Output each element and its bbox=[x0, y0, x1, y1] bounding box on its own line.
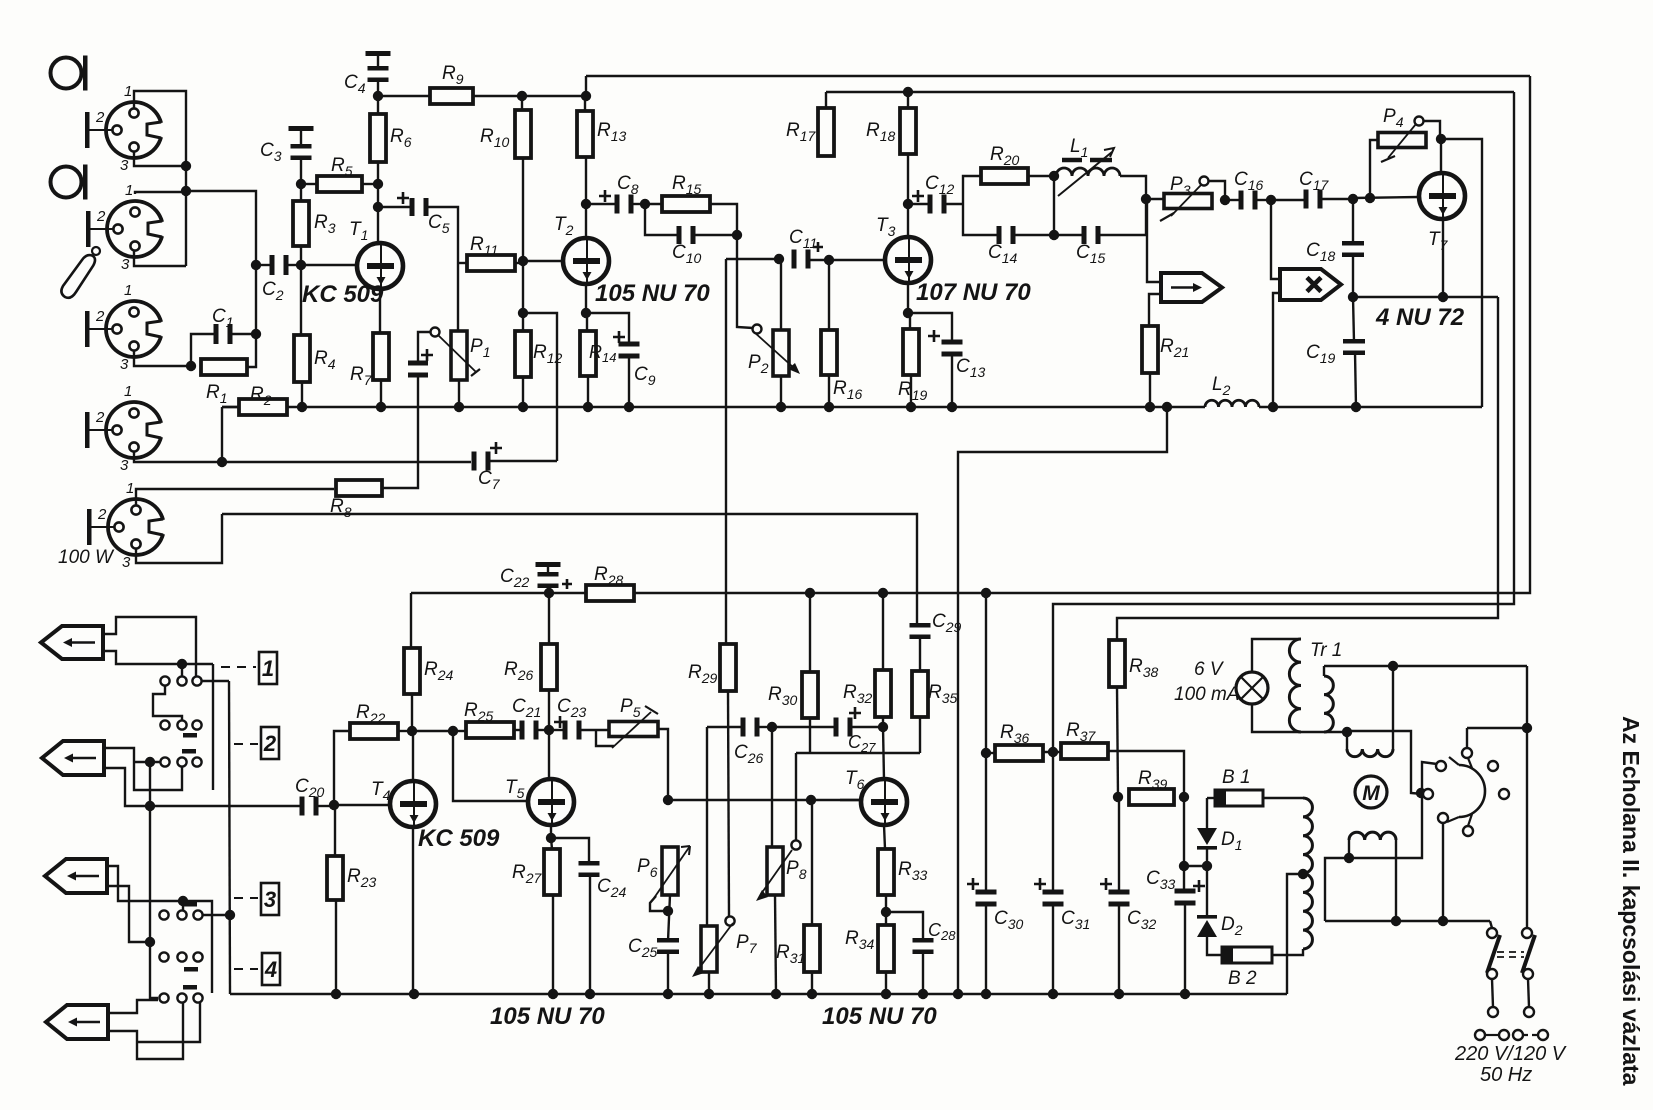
wire DIN5 pin3 to bus2 bbox=[136, 514, 222, 563]
wire C26 left bbox=[707, 726, 741, 728]
wire R23 bottom bbox=[335, 900, 337, 994]
rotary switch tick bottom-right bbox=[1468, 814, 1472, 826]
junction T3 base node bbox=[824, 255, 834, 265]
svg-text:105 NU 70: 105 NU 70 bbox=[490, 1003, 605, 1030]
erase/play head D (left) bbox=[46, 1005, 108, 1039]
resistor R36 bbox=[995, 745, 1043, 761]
wire headD bottom prong bbox=[108, 1003, 183, 1059]
capacitor C2 bbox=[270, 255, 289, 275]
wire headA node right bbox=[182, 663, 213, 665]
wire filter left node bbox=[963, 176, 981, 204]
junction R12 top tap bbox=[518, 308, 528, 318]
wire C4 stem lower bbox=[377, 79, 379, 96]
wire C19 bottom bbox=[1355, 352, 1356, 407]
potentiometer P2 bbox=[753, 325, 801, 377]
svg-text:105 NU 70: 105 NU 70 bbox=[822, 1003, 937, 1030]
switch contact bar 1 bbox=[183, 733, 197, 738]
wire R34 bottom bbox=[885, 972, 887, 994]
rotary contact 6 (spare) bbox=[1488, 761, 1498, 771]
wire C3 stem upper bbox=[300, 131, 302, 147]
junction T5 emitter node bbox=[546, 833, 556, 843]
junction C20 input node bbox=[145, 801, 155, 811]
switch contact r1c2 bbox=[177, 676, 186, 685]
junction bus R7 bbox=[376, 402, 386, 412]
resistor R17 bbox=[818, 108, 834, 156]
junction bus R21 bbox=[1145, 402, 1155, 412]
wire C15 right bbox=[1100, 199, 1146, 235]
junction T4 base node bbox=[329, 800, 339, 810]
pickup stylus symbol bbox=[61, 247, 100, 298]
resistor R23 bbox=[327, 856, 343, 900]
wire lower rail bbox=[1325, 920, 1490, 922]
wire R18 top bbox=[907, 92, 909, 108]
dashed link to box 3 bbox=[234, 897, 258, 899]
wire B1 left bbox=[1207, 797, 1215, 799]
svg-text:Tr 1: Tr 1 bbox=[1310, 640, 1342, 661]
junction Tr1 rail / motor winding bbox=[1388, 661, 1398, 671]
wire to P8 top bbox=[771, 727, 773, 847]
mains switch blade right bbox=[1522, 935, 1535, 973]
wire R22 right bbox=[398, 730, 412, 732]
wire T4 base bbox=[334, 804, 391, 806]
wire C12 right bbox=[946, 203, 963, 205]
wire B2 right bbox=[1272, 949, 1303, 955]
inductor L1 core bars bbox=[1062, 158, 1112, 163]
capacitor C22 bbox=[538, 572, 559, 588]
wire filter left node down bbox=[963, 204, 998, 235]
junction headA node bbox=[177, 659, 187, 669]
resistor R4 bbox=[294, 335, 310, 382]
wire T7 emitter bbox=[1442, 219, 1444, 297]
junction R2 left tap bbox=[217, 457, 227, 467]
wire P8 bottom bbox=[775, 895, 776, 994]
wire C18 bottom bbox=[1352, 254, 1354, 297]
junction D1/D2 midpoint tap bbox=[1179, 861, 1189, 871]
junction C18/C19/emitter rail bbox=[1348, 292, 1358, 302]
DIN connector X5 pin 2 terminal bbox=[87, 509, 92, 545]
junction bus R19 bbox=[906, 402, 916, 412]
wire R12 top tap to C7 column bbox=[523, 313, 557, 461]
wire R15 left bbox=[645, 203, 662, 205]
mains switch coupling dashes bbox=[1497, 952, 1524, 957]
junction bus R31 bbox=[807, 989, 817, 999]
wire R26 bottom bbox=[548, 690, 550, 730]
wire C25 bottom bbox=[667, 951, 669, 994]
wire C2 left bbox=[256, 264, 272, 266]
wire T3 collector bbox=[907, 154, 909, 237]
wire T2 base bbox=[523, 260, 563, 262]
plus sign C11 bbox=[813, 242, 823, 252]
DIN connector X3 bbox=[106, 301, 161, 357]
wire R34 top bbox=[885, 912, 887, 925]
wire C16 left bbox=[1225, 199, 1239, 201]
wire motor lower winding right bbox=[1395, 840, 1397, 921]
wire C20 right bbox=[318, 805, 334, 807]
wire R14 bottom bbox=[587, 376, 589, 407]
inductor L2 bbox=[1205, 400, 1259, 407]
wire node column bbox=[185, 166, 187, 266]
wire C10 right bbox=[695, 234, 737, 236]
junction bus P1 bbox=[454, 402, 464, 412]
wire headA bottom prong bbox=[103, 651, 182, 664]
wire R33 bottom bbox=[885, 895, 887, 912]
wire C8 right bbox=[633, 203, 645, 205]
svg-text:3: 3 bbox=[120, 157, 129, 174]
wire C7 right bbox=[490, 460, 557, 462]
wire C21 right bbox=[538, 729, 549, 731]
wire headD link bbox=[137, 1003, 200, 1042]
switch contact r4c1 bbox=[159, 910, 168, 919]
wire R25-C21 bbox=[514, 729, 520, 731]
wire collector link line bbox=[796, 752, 920, 754]
resistor R27 bbox=[544, 849, 560, 895]
resistor R7 bbox=[373, 333, 389, 380]
junction lower column node bbox=[145, 937, 155, 947]
wire C8 left bbox=[586, 203, 615, 205]
switch contact r6c1 bbox=[159, 993, 168, 1002]
wire T6 collector bbox=[883, 727, 884, 780]
motor lower winding bbox=[1349, 832, 1396, 840]
wire head1 feed bbox=[1147, 200, 1161, 282]
lamp 6V 100mA bbox=[1236, 672, 1268, 704]
wire R36 left bbox=[986, 752, 995, 754]
wire switch right down bbox=[1528, 979, 1529, 1007]
junction bus R12 bbox=[518, 402, 528, 412]
resistor R9 bbox=[430, 88, 473, 104]
capacitor C3 terminal bar bbox=[289, 126, 314, 131]
wire bus drop to link bbox=[958, 407, 1167, 994]
transformer Tr1 primary winding (mains section) bbox=[1324, 676, 1333, 732]
rotary switch tick top-right bbox=[1468, 758, 1472, 768]
switch contact r2c3 bbox=[192, 720, 201, 729]
wire T1 collector bbox=[377, 184, 379, 243]
potentiometer P3 bbox=[1160, 177, 1212, 222]
wire rotary feed down bbox=[1466, 728, 1468, 749]
wire emitter to C9 bbox=[586, 313, 629, 346]
wire C29 bottom bbox=[919, 636, 921, 671]
junction C10/R15 node bbox=[732, 230, 742, 240]
wire R25 left bbox=[453, 730, 466, 732]
junction P4/T7 collector node bbox=[1436, 134, 1446, 144]
wire headD top prong bbox=[108, 1000, 158, 1013]
wire B1 right bbox=[1263, 797, 1303, 799]
potentiometer P5 bbox=[609, 706, 658, 748]
svg-text:3: 3 bbox=[264, 887, 276, 912]
junction rail A C22/R26 bbox=[544, 588, 554, 598]
resistor R33 bbox=[878, 849, 894, 895]
junction C8/R15 node bbox=[640, 199, 650, 209]
svg-text:2: 2 bbox=[96, 208, 106, 225]
resistor R11 bbox=[467, 255, 515, 271]
potentiometer P4 bbox=[1378, 117, 1426, 163]
capacitor C24 bbox=[579, 861, 600, 877]
wire DIN1 pin3 to node bbox=[134, 151, 186, 166]
wire R3 top bbox=[300, 184, 302, 201]
mains terminal left bbox=[1488, 1007, 1498, 1017]
wire C24 bottom bbox=[589, 875, 591, 994]
wire P7 bottom bbox=[708, 972, 710, 994]
switch contact r3c1 bbox=[160, 757, 169, 766]
junction R25/T5-base node bbox=[448, 726, 458, 736]
wire base node to T3 bbox=[829, 259, 885, 261]
junction bus R16 bbox=[824, 402, 834, 412]
rectifier B1 bbox=[1215, 790, 1263, 806]
wire R5 right bbox=[362, 183, 378, 185]
junction T2 emitter node bbox=[581, 308, 591, 318]
wire T2 emitter bbox=[585, 284, 587, 313]
rotary contact 2 bbox=[1423, 789, 1433, 799]
resistor R15 bbox=[662, 196, 710, 212]
wire motor upper winding right bbox=[1392, 666, 1394, 749]
junction C1/R1 right node bbox=[251, 329, 261, 339]
wire R3 to base node bbox=[300, 246, 302, 265]
junction bus C28 bbox=[918, 989, 928, 999]
wire T2 collector bbox=[585, 157, 587, 238]
resistor R3 bbox=[293, 201, 309, 246]
wire emitter to C13 bbox=[908, 313, 952, 344]
wire D2 to B2 bbox=[1207, 937, 1222, 955]
wire C27 right bbox=[852, 726, 883, 728]
capacitor C8 bbox=[615, 195, 634, 214]
wire emitter to C24 bbox=[551, 838, 589, 864]
resistor R30 bbox=[802, 672, 818, 718]
capacitor C1 bbox=[214, 324, 233, 344]
junction R36/R37 node bbox=[1048, 747, 1058, 757]
capacitor C9 bbox=[619, 342, 640, 359]
resistor R37 bbox=[1061, 743, 1108, 759]
capacitor C5 bbox=[410, 198, 429, 216]
mains switch contact top-right bbox=[1522, 928, 1532, 938]
wire T5 emitter bbox=[550, 824, 552, 838]
capacitor C10 bbox=[677, 226, 696, 244]
DIN connector X5 pin 2 wire bbox=[92, 526, 116, 528]
resistor R28 bbox=[586, 585, 634, 601]
junction C26/C27 node bbox=[767, 722, 777, 732]
wire C5 right to P1 top bbox=[428, 207, 458, 331]
wire P4 left down bbox=[1370, 140, 1378, 198]
microphone symbol 2 bbox=[51, 165, 88, 200]
wire base to R22 bbox=[334, 731, 350, 805]
wire emitter rail right drop bbox=[1117, 297, 1498, 640]
wire P4 wiper bbox=[1424, 121, 1440, 139]
svg-text:1: 1 bbox=[125, 182, 133, 199]
svg-text:105 NU 70: 105 NU 70 bbox=[595, 280, 710, 307]
capacitor C19 bbox=[1343, 339, 1365, 355]
rotary contact 1 bbox=[1436, 761, 1446, 771]
DIN connector X3 pin 2 terminal bbox=[85, 311, 90, 347]
wire P3 wiper bbox=[1209, 181, 1225, 200]
switch contact r2c2 bbox=[177, 720, 186, 729]
resistor R22 bbox=[350, 723, 398, 739]
DIN connector X1 pin 2 wire bbox=[90, 129, 114, 131]
wire C19 top bbox=[1353, 297, 1354, 342]
switch contact bar 4 bbox=[184, 967, 198, 972]
wire T3 emitter bbox=[907, 283, 909, 313]
wire feedback right bbox=[1441, 139, 1482, 407]
wire selector column 3 bbox=[149, 762, 151, 942]
wire C18 top bbox=[1352, 199, 1354, 244]
resistor R6 bbox=[370, 114, 386, 162]
junction mic bus node bbox=[181, 186, 191, 196]
wire R31 top bbox=[811, 800, 813, 925]
DIN connector X1 pin 2 terminal bbox=[85, 112, 90, 148]
transistor T6 bbox=[861, 779, 907, 825]
wire C9 to bus1 bbox=[628, 356, 630, 407]
switch contact r3c2 bbox=[177, 757, 186, 766]
wire R8 right to C6 column bbox=[382, 376, 418, 488]
inductor L1 (variable) bbox=[1056, 168, 1120, 176]
wire R32 bottom bbox=[882, 717, 884, 727]
wire R24 bottom bbox=[411, 694, 413, 731]
wire rotary return bbox=[1442, 822, 1444, 921]
wire upper wire to rotary bbox=[1347, 731, 1423, 794]
junction motor lower winding bbox=[1344, 853, 1354, 863]
capacitor C4 bbox=[368, 66, 389, 82]
capacitor C13 bbox=[942, 340, 963, 357]
rotary contact 3 bbox=[1438, 813, 1448, 823]
junction C4/R6/R9 node bbox=[373, 91, 383, 101]
wire R30 top bbox=[809, 593, 811, 672]
junction T7 emitter node bbox=[1438, 292, 1448, 302]
junction bus drop node bbox=[1162, 402, 1172, 412]
wire DIN2 pin3 to node bbox=[134, 250, 186, 266]
wire headB node bbox=[134, 761, 161, 763]
motor M bbox=[1355, 776, 1387, 808]
DIN connector X2 pin 2 terminal bbox=[86, 211, 91, 247]
wire Tr1 winding top bbox=[1323, 666, 1325, 676]
wire T5 collector bbox=[548, 730, 550, 780]
transistor T7 bbox=[1419, 173, 1465, 219]
wire R27 bottom bbox=[552, 895, 554, 994]
inductor L1 adjust arrow bbox=[1058, 148, 1114, 196]
wire C1 right bbox=[232, 333, 256, 335]
capacitor C15 bbox=[1082, 226, 1101, 244]
junction C18 node bbox=[1348, 194, 1358, 204]
rotary switch tick bottom bbox=[1447, 817, 1459, 822]
junction R39 left node bbox=[1113, 792, 1123, 802]
wire R1 right up bbox=[247, 334, 256, 367]
mains switch blade left bbox=[1487, 935, 1500, 973]
resistor R31 bbox=[804, 925, 820, 972]
wire R37 right bbox=[1108, 751, 1184, 797]
junction bus C33 bbox=[1180, 989, 1190, 999]
capacitor C6 bbox=[408, 361, 428, 378]
position box 1 bbox=[259, 652, 277, 684]
motor upper winding bbox=[1347, 749, 1393, 757]
junction bus C32 bbox=[1114, 989, 1124, 999]
junction R33/R34/C28 node bbox=[881, 907, 891, 917]
wire R4 to bus1 bbox=[301, 382, 303, 407]
erase/play head C (left) bbox=[45, 859, 107, 893]
wire D1 to midpoint bbox=[1206, 849, 1208, 866]
resistor R29 bbox=[720, 644, 736, 691]
svg-text:2: 2 bbox=[263, 731, 277, 756]
junction C16/C17 node bbox=[1266, 195, 1276, 205]
junction C14/C15 node bbox=[1049, 230, 1059, 240]
svg-text:B 2: B 2 bbox=[1228, 968, 1257, 989]
junction bus C31 bbox=[1048, 989, 1058, 999]
wire C23 left bbox=[549, 729, 563, 731]
junction bus R27 bbox=[548, 989, 558, 999]
junction bus R34 bbox=[881, 989, 891, 999]
potentiometer P1 bbox=[431, 328, 481, 381]
switch contact r2c1 bbox=[160, 720, 169, 729]
plus sign C30 bbox=[967, 878, 979, 890]
wire headA node stub bbox=[181, 664, 183, 676]
svg-text:100 mA: 100 mA bbox=[1174, 684, 1239, 705]
wire P8 wiper up bbox=[795, 753, 797, 841]
capacitor C31 bbox=[1043, 890, 1064, 907]
capacitor C32 bbox=[1109, 890, 1130, 907]
junction R31 top bbox=[806, 795, 816, 805]
svg-text:KC 509: KC 509 bbox=[418, 825, 500, 852]
wire to P2 wiper bbox=[737, 235, 753, 328]
wire R10 top bbox=[521, 96, 523, 110]
junction headC node bbox=[178, 896, 188, 906]
junction bus P2 bbox=[776, 402, 786, 412]
wire rotary contact link bbox=[1349, 762, 1437, 858]
wire R19 top bbox=[909, 313, 911, 329]
switch contact r4c3 bbox=[193, 910, 202, 919]
wire lamp top bbox=[1252, 639, 1301, 672]
svg-text:2: 2 bbox=[95, 409, 105, 426]
wire C3 stem lower bbox=[300, 158, 302, 184]
svg-text:3: 3 bbox=[121, 256, 130, 273]
rectifier B2 bbox=[1222, 947, 1272, 963]
junction bus C13 bbox=[947, 402, 957, 412]
capacitor C30 bbox=[976, 890, 997, 907]
svg-text:107 NU 70: 107 NU 70 bbox=[916, 279, 1031, 306]
wire top supply rail (outer) bbox=[586, 75, 1530, 77]
junction bus C9 bbox=[624, 402, 634, 412]
plug pin 1 bbox=[1475, 1030, 1485, 1040]
rotary switch tick top bbox=[1449, 757, 1459, 765]
wire head2 feed bbox=[1271, 200, 1280, 279]
capacitor C22 terminal bar bbox=[536, 562, 561, 567]
transistor T3 bbox=[885, 237, 931, 283]
resistor R24 bbox=[404, 648, 420, 694]
switch contact r1c3 bbox=[192, 676, 201, 685]
wire T1 base bbox=[301, 264, 357, 266]
junction T5 collector node bbox=[544, 725, 554, 735]
svg-text:M: M bbox=[1362, 782, 1380, 805]
plus sign C21/C23 bbox=[554, 716, 566, 728]
svg-text:100 W: 100 W bbox=[58, 547, 115, 568]
resistor R20 bbox=[981, 168, 1028, 184]
wire base node down to R4 bbox=[300, 265, 302, 335]
junction filter output node bbox=[1141, 194, 1151, 204]
potentiometer P8 bbox=[756, 847, 792, 901]
wire R9 right rail bbox=[473, 95, 586, 97]
svg-text:3: 3 bbox=[120, 356, 129, 373]
wire L1 tap down bbox=[1053, 176, 1055, 235]
wire r1c3 to column bbox=[202, 680, 229, 682]
resistor R5 bbox=[317, 176, 362, 192]
junction bus T4 emitter bbox=[409, 989, 419, 999]
wire R21 bottom bbox=[1149, 373, 1151, 407]
wire head2 return bbox=[1273, 293, 1280, 407]
junction rotary link cross bbox=[1416, 788, 1426, 798]
wire R7 to bus1 bbox=[380, 380, 382, 407]
wire C11 left rail bbox=[726, 258, 779, 260]
capacitor C20 bbox=[300, 797, 319, 816]
svg-text:3: 3 bbox=[120, 457, 129, 474]
wire L1 right bbox=[1120, 176, 1146, 199]
wire R6 top bbox=[377, 96, 379, 114]
junction C8 tap bbox=[581, 199, 591, 209]
junction C5 tap node bbox=[373, 202, 383, 212]
wire C26 left column bbox=[706, 727, 708, 926]
